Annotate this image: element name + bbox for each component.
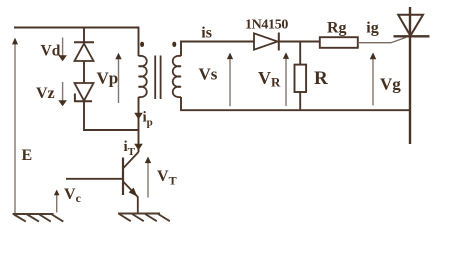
wire: primary bottom to collector xyxy=(138,97,140,152)
current arrow ip xyxy=(134,113,143,120)
current arrow iT xyxy=(134,144,143,151)
zener diode Vz (points down) xyxy=(75,83,94,101)
transistor (NPN) xyxy=(123,152,139,214)
wire: secondary bottom rail xyxy=(181,97,410,110)
resistor Rg xyxy=(320,37,358,48)
transformer core xyxy=(155,56,160,100)
voltage arrow Vc xyxy=(54,190,60,213)
voltage arrow Vg xyxy=(370,53,377,106)
wire: Vz down and across to primary bottom xyxy=(84,101,139,130)
svg-text:1N4150: 1N4150 xyxy=(245,18,288,33)
wire: R to bottom rail xyxy=(299,92,301,110)
diode 1N4150 xyxy=(254,33,279,51)
wire: Rg to thyristor gate xyxy=(358,37,406,42)
wire: rail down to diode Vd xyxy=(83,28,85,43)
wire: secondary top to diode xyxy=(181,42,254,57)
polarity dot (secondary) xyxy=(172,42,176,47)
wire: top rail from left to primary xyxy=(14,28,139,57)
ground (emitter) xyxy=(118,214,170,222)
wire: base xyxy=(66,178,123,180)
svg-text:Vp: Vp xyxy=(97,68,119,87)
transformer secondary winding xyxy=(173,56,181,97)
transformer primary winding xyxy=(139,56,147,97)
svg-text:Rg: Rg xyxy=(327,19,347,36)
svg-text:R: R xyxy=(314,68,328,89)
svg-text:E: E xyxy=(22,147,33,164)
voltage arrow E xyxy=(12,38,18,214)
polarity dot (primary) xyxy=(140,42,144,47)
svg-text:ig: ig xyxy=(366,19,378,36)
svg-text:Vg: Vg xyxy=(380,74,401,93)
ground (left, battery return) xyxy=(13,214,64,222)
svg-text:is: is xyxy=(201,25,212,42)
wire: junction down to R xyxy=(299,42,301,65)
arrow Vz (down) xyxy=(58,82,67,106)
svg-text:Vd: Vd xyxy=(41,43,61,60)
thyristor xyxy=(394,7,430,144)
svg-text:Vs: Vs xyxy=(199,65,218,84)
voltage arrow VT xyxy=(145,157,151,198)
arrow Vd (down) xyxy=(58,38,67,62)
svg-text:Vz: Vz xyxy=(36,85,55,102)
diode Vd (points up) xyxy=(74,42,94,61)
resistor R xyxy=(295,65,307,92)
voltage arrow Vp xyxy=(115,53,121,103)
wire: diode to Rg with junction to R xyxy=(279,41,320,43)
voltage arrow Vs xyxy=(227,53,233,107)
wire: between Vd and Vz xyxy=(83,61,85,83)
voltage arrow VR xyxy=(283,52,289,106)
